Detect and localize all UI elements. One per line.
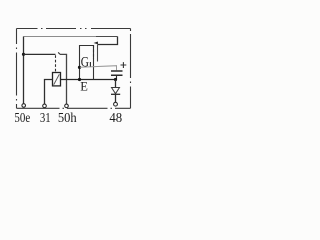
polarity plus sign bbox=[121, 62, 127, 68]
node box bottom-left bbox=[78, 78, 81, 81]
svg-text:50e: 50e bbox=[14, 111, 30, 126]
wire left vertical (50e feed) bbox=[23, 37, 25, 104]
terminal circle 50h bbox=[65, 104, 69, 108]
unit G/E box bbox=[80, 46, 94, 80]
node capacitor junction bbox=[114, 78, 117, 81]
relay coil K (box with diagonal) bbox=[53, 73, 61, 86]
wire node to diode bbox=[115, 80, 117, 88]
terminal circle 48 bbox=[114, 102, 118, 106]
wire top bus right segment (contact loop top) bbox=[96, 36, 118, 38]
contact arrow (moving contact) bbox=[94, 42, 98, 45]
svg-text:48: 48 bbox=[109, 111, 122, 126]
capacitor lead bbox=[116, 75, 118, 79]
housing border (dash-dot) bbox=[17, 29, 131, 109]
svg-text:31: 31 bbox=[40, 111, 51, 126]
wire top bus bbox=[24, 36, 97, 38]
wire upper contact (bus drop and arm) bbox=[98, 37, 118, 45]
svg-text:E: E bbox=[80, 79, 88, 93]
svg-text:G: G bbox=[81, 54, 90, 70]
label G subscript 1 bbox=[89, 62, 91, 67]
wire coil to terminal 31 bbox=[45, 80, 53, 105]
contact hook (fixed contact) bbox=[58, 52, 60, 54]
mechanical link (dashed) G to upper contact bbox=[93, 45, 95, 59]
wire diode to terminal 48 bbox=[115, 94, 117, 102]
wire divider to capacitor bbox=[80, 66, 117, 71]
node on box left edge bbox=[78, 66, 81, 69]
wire bottom bus (coil to capacitor node) bbox=[61, 79, 116, 81]
capacitor C plates bbox=[111, 71, 123, 75]
wire to terminal 50h bbox=[60, 54, 67, 104]
wire contact arm at y54 bbox=[24, 53, 56, 55]
node junction on left wire bbox=[22, 53, 25, 56]
diode V1 (triangle + bar) bbox=[112, 88, 120, 94]
terminal circle 50e bbox=[22, 104, 26, 108]
mechanical link (dashed) coil to contact bbox=[55, 55, 57, 72]
fixed contact lead bbox=[97, 45, 99, 62]
svg-text:50h: 50h bbox=[58, 111, 77, 126]
terminal circle 31 bbox=[43, 104, 47, 108]
